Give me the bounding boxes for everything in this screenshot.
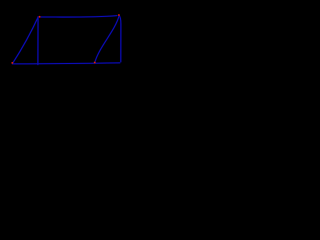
wire: inner vertical from TL down to bottom edge (37, 17, 39, 65)
wire: inner diagonal (TR to BR node) (95, 15, 119, 62)
background (0, 0, 132, 83)
wire: right edge (TR down to bottom-right corner) (119, 15, 121, 62)
wire: glow underlay for all blue edges (12, 15, 121, 64)
wire: left edge (TL to BL) (13, 17, 39, 63)
node BL (red vertex dot) (11, 62, 14, 65)
node TR (red vertex dot) (118, 14, 121, 17)
wire: bottom edge (BL to bottom-right corner) (12, 63, 119, 64)
node BR (red vertex dot) (93, 61, 96, 64)
node TL (red vertex dot) (38, 15, 41, 18)
wire: top edge (TL to TR) (41, 16, 117, 17)
